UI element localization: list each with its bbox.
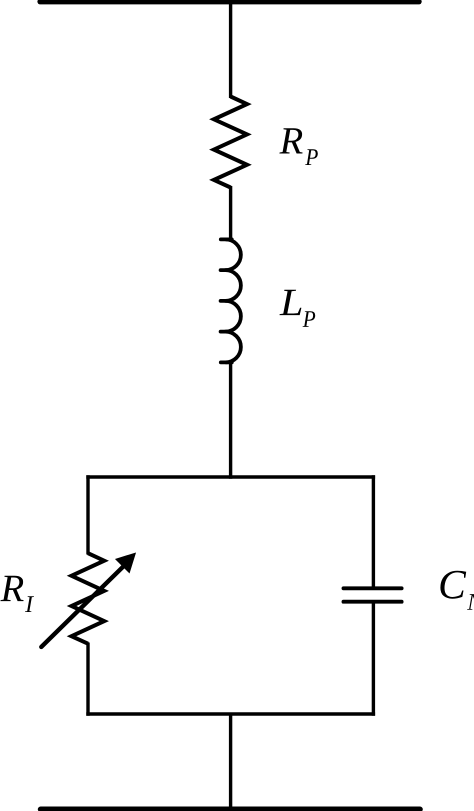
wire: right branch upper [372,475,375,587]
inductor LP junction nub 2 [221,299,227,303]
inductor LP bottom hook [221,360,232,364]
node: bottom wire of parallel section [86,712,375,715]
label LP letter L [280,290,302,315]
inductor LP junction nub 1 [221,268,227,272]
capacitor CN top plate [344,586,402,590]
resistor RP [214,97,247,188]
capacitor CN bottom plate [344,600,402,604]
wire from top rail to resistor RP [229,1,232,98]
bottom rail (lower electrode bar) [41,806,420,811]
label RI letter R [0,576,23,601]
wire: left branch upper [86,475,89,554]
top rail (upper electrode bar) [40,0,419,4]
inductor LP top hook [221,237,232,241]
inductor LP coil arcs [226,239,241,362]
wire: right branch lower [372,602,375,716]
wire from resistor RP to inductor LP [229,186,232,240]
wire from inductor LP to parallel section [229,362,232,478]
label CN letter C [440,571,466,599]
variable resistor RI (zigzag) [72,553,105,644]
variable resistor RI arrow head [116,553,135,572]
wire: left branch lower [86,643,89,716]
label RP letter R [279,128,302,153]
label RI subscript I [25,596,34,612]
label LP subscript P [303,311,316,327]
label RP subscript P [305,149,318,165]
variable resistor RI arrow shaft [41,565,124,647]
wire from parallel section to bottom rail [229,714,232,809]
label CN subscript N (cut off at right edge) [467,594,474,610]
node: top wire of parallel section [86,475,375,478]
inductor LP junction nub 3 [221,330,227,334]
